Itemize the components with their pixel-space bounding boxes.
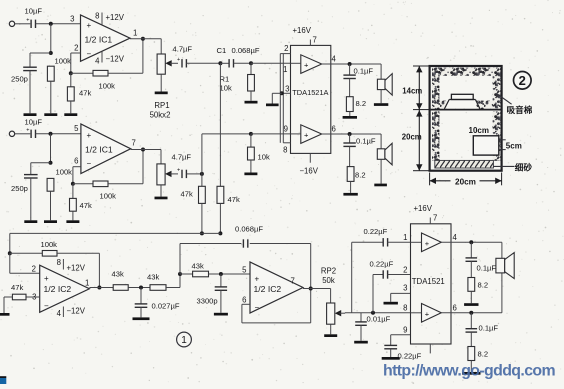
- wire: [470, 291, 472, 303]
- label 5cm: [500, 140, 522, 151]
- watermark url: [383, 362, 555, 379]
- wire: [140, 307, 142, 317]
- pin 6 label: [332, 125, 336, 134]
- svg-text:+: +: [177, 168, 180, 174]
- cabinet divider shelf: [431, 109, 502, 111]
- svg-text:7: 7: [433, 214, 437, 223]
- pin 4 -12V ch1: [95, 52, 125, 66]
- resistor 43k no1: [112, 270, 129, 291]
- figure label 2 circled: [514, 72, 532, 90]
- svg-text:10cm: 10cm: [469, 126, 489, 135]
- svg-text:0.01µF: 0.01µF: [367, 314, 391, 323]
- RP1 label: [150, 101, 171, 120]
- dimension 20cm bottom: [430, 173, 502, 187]
- svg-text:50kx2: 50kx2: [150, 111, 171, 120]
- pin 4 -12V IC2: [57, 307, 86, 319]
- node IC2b out: [309, 287, 313, 291]
- resistor 100k ch1 input: [47, 57, 71, 82]
- capacitor 0.22uF pin1: [352, 227, 411, 313]
- wire: [411, 312, 422, 314]
- node ch1 split: [218, 61, 222, 65]
- node pin3: [280, 91, 284, 95]
- wire: [380, 159, 382, 183]
- wire speaker bridge: [501, 242, 503, 312]
- node out6: [348, 132, 352, 136]
- node out6: [469, 311, 473, 315]
- op-amp IC2b: [250, 262, 303, 313]
- svg-text:+: +: [425, 239, 430, 248]
- pin 3 label: [70, 14, 74, 23]
- cabinet sand layer: [435, 160, 494, 168]
- dimension 14cm 20cm: [402, 66, 429, 171]
- wire: [160, 185, 162, 197]
- svg-text:250p: 250p: [11, 74, 28, 83]
- ground: [374, 103, 388, 106]
- amp A triangle: [422, 233, 442, 252]
- svg-text:1/2 IC2: 1/2 IC2: [254, 284, 282, 294]
- node ch1 bias: [49, 51, 53, 55]
- svg-text:47k: 47k: [80, 201, 92, 210]
- ground: [155, 92, 168, 95]
- pin 2 label: [403, 266, 407, 275]
- svg-text:3300p: 3300p: [197, 297, 218, 306]
- wire: [380, 64, 382, 79]
- svg-text:1: 1: [181, 335, 187, 346]
- pin 6 label: [74, 157, 78, 166]
- svg-text:47k: 47k: [181, 190, 193, 199]
- svg-text:0.22µF: 0.22µF: [370, 259, 394, 268]
- pin 2 label: [74, 44, 78, 53]
- svg-text:−12V: −12V: [67, 307, 86, 316]
- label absorbing cotton: [497, 94, 533, 115]
- svg-text:3: 3: [403, 284, 407, 293]
- wire: [29, 71, 31, 114]
- svg-text:47k: 47k: [228, 195, 240, 204]
- svg-text:RP1: RP1: [154, 101, 169, 110]
- wire: [411, 241, 422, 243]
- wire: [470, 361, 472, 373]
- svg-text:43k: 43k: [112, 270, 124, 279]
- capacitor 0.1uF out6: [466, 313, 499, 333]
- op-amp IC1b: [81, 124, 131, 174]
- wire: [10, 253, 40, 273]
- pins 2-3-8 tie column: [280, 54, 290, 143]
- wire: [166, 274, 180, 288]
- wire pin6 loop: [242, 289, 311, 323]
- capacitor 0.068uF feedback: [180, 225, 311, 289]
- capacitor 3300p: [197, 274, 228, 306]
- resistor R1 10k: [220, 63, 255, 92]
- pin 8 label: [283, 146, 287, 155]
- node ch1 fb: [69, 71, 73, 75]
- svg-text:2: 2: [519, 73, 526, 88]
- svg-text:+12V: +12V: [67, 264, 86, 273]
- svg-text:4: 4: [57, 309, 62, 318]
- svg-text:0.1µF: 0.1µF: [354, 67, 374, 76]
- node ch2 input: [49, 132, 53, 136]
- wire pin6: [73, 167, 81, 184]
- speaker LS1: [377, 74, 392, 96]
- resistor 47k IC2a: [4, 283, 40, 313]
- wire: [201, 203, 203, 233]
- wire out6: [322, 133, 381, 135]
- capacitor 0.1uF out4: [466, 242, 497, 272]
- svg-text:4.7µF: 4.7µF: [173, 45, 193, 54]
- ground: [44, 113, 57, 116]
- ground: [462, 372, 480, 375]
- wire: [31, 163, 51, 175]
- node 3300p top: [219, 272, 223, 276]
- node ch2 bias: [49, 161, 53, 165]
- svg-text:43k: 43k: [147, 273, 159, 282]
- pin 5 -16V stub: [300, 153, 319, 175]
- potentiometer RP2: [321, 267, 341, 325]
- capacitor 10uF ch1: [25, 7, 43, 29]
- wire: [349, 112, 351, 117]
- capacitor 0.22uF pin2: [370, 259, 411, 313]
- node IC2a out: [97, 286, 101, 290]
- wire: [30, 178, 32, 220]
- svg-text:TDA1521: TDA1521: [412, 277, 445, 286]
- svg-text:47k: 47k: [79, 89, 91, 98]
- svg-text:8: 8: [95, 12, 99, 21]
- cabinet absorbing-lining top chamber: [432, 68, 501, 109]
- svg-text:−: −: [87, 50, 92, 59]
- svg-text:TDA1521A: TDA1521A: [292, 88, 328, 97]
- svg-text:C1: C1: [217, 46, 227, 55]
- svg-text:50k: 50k: [322, 276, 335, 285]
- ground: [244, 173, 257, 176]
- svg-text:4: 4: [332, 55, 337, 64]
- svg-text:R1: R1: [220, 75, 230, 84]
- pin 9 label: [284, 125, 288, 134]
- pin 1 label: [283, 65, 287, 74]
- pin 8 +12V ch1: [95, 12, 125, 25]
- resistor 8.2 out4: [468, 261, 488, 291]
- svg-text:2: 2: [284, 44, 288, 53]
- svg-text:0.1µF: 0.1µF: [356, 137, 376, 146]
- svg-text:14cm: 14cm: [402, 87, 422, 96]
- wire: [30, 53, 51, 67]
- wire: [250, 91, 252, 101]
- wire: [202, 134, 251, 174]
- wire to pin1: [251, 62, 291, 64]
- wire: [291, 62, 301, 64]
- wire: [220, 290, 222, 313]
- wire: [380, 134, 382, 149]
- wire: [15, 133, 31, 135]
- svg-text:0.22µF: 0.22µF: [398, 352, 422, 361]
- svg-text:0.1µF: 0.1µF: [477, 264, 497, 273]
- resistor 47k ch2: [70, 184, 92, 211]
- svg-text:+: +: [26, 18, 29, 24]
- svg-text:0.068µF: 0.068µF: [232, 46, 260, 55]
- amp B triangle: [301, 125, 322, 144]
- svg-text:http://www.go-gddq.com: http://www.go-gddq.com: [383, 362, 555, 379]
- pin 2 label: [32, 265, 36, 274]
- ground: [133, 317, 150, 320]
- pin3 ground net: [391, 293, 411, 301]
- svg-text:+: +: [87, 21, 92, 30]
- ground: [24, 113, 37, 116]
- ground: [354, 341, 368, 344]
- resistor 47k mix L: [181, 174, 206, 204]
- wire: [108, 150, 143, 184]
- svg-text:−: −: [255, 303, 260, 312]
- svg-text:+16V: +16V: [293, 26, 312, 35]
- pin 4 label: [453, 233, 458, 242]
- pin 7 +16V: [293, 26, 317, 45]
- potentiometer RP1b: [157, 164, 178, 185]
- svg-text:8.2: 8.2: [355, 171, 366, 180]
- resistor 43k no3: [180, 261, 209, 277]
- ground: [66, 220, 79, 223]
- svg-text:100k: 100k: [41, 240, 58, 249]
- pin 2 label: [284, 44, 288, 53]
- pin 3 label: [32, 293, 36, 302]
- svg-text:1: 1: [403, 233, 407, 242]
- pin 4 label: [332, 55, 337, 64]
- node out4: [469, 240, 473, 244]
- svg-text:5cm: 5cm: [506, 141, 522, 150]
- ground: [382, 357, 400, 360]
- svg-text:1: 1: [85, 278, 89, 287]
- ground: [0, 313, 10, 316]
- ground: [24, 220, 37, 223]
- svg-text:细砂: 细砂: [515, 162, 533, 173]
- svg-text:100k: 100k: [55, 57, 72, 66]
- capacitor 4.7uF ch1: [173, 45, 193, 68]
- pin 7 label: [291, 277, 295, 286]
- wire wiper row: [339, 312, 410, 314]
- input jack J1 (left channel): [9, 21, 14, 26]
- svg-text:1: 1: [133, 29, 137, 38]
- wire: [350, 181, 352, 193]
- svg-text:+: +: [304, 131, 309, 140]
- amp A triangle: [301, 55, 322, 74]
- pin 6 label: [242, 296, 246, 305]
- wire: [360, 325, 362, 341]
- wire: [291, 133, 301, 135]
- wire: [160, 74, 162, 91]
- capacitor 250p ch2: [11, 175, 38, 193]
- resistor 43k no2: [147, 273, 166, 291]
- svg-text:+: +: [44, 274, 49, 283]
- svg-text:8.2: 8.2: [478, 350, 489, 359]
- svg-text:6: 6: [332, 125, 336, 134]
- svg-text:0.22µF: 0.22µF: [364, 227, 388, 236]
- svg-text:1/2 IC1: 1/2 IC1: [85, 145, 113, 155]
- wire: [72, 211, 74, 220]
- wire: [36, 23, 81, 25]
- resistor 8.2 ch1: [346, 79, 366, 112]
- pin 7 +16V: [414, 204, 438, 224]
- svg-text:吸音棉: 吸音棉: [507, 104, 533, 115]
- node 0.027 top: [139, 286, 143, 290]
- IC TDA1521 box: [411, 224, 452, 344]
- svg-text:+: +: [177, 57, 180, 63]
- potentiometer RP1a: [157, 54, 178, 74]
- svg-text:+: +: [425, 310, 430, 319]
- svg-text:8.2: 8.2: [478, 281, 489, 290]
- wire: [15, 23, 31, 25]
- resistor 8.2 ch2: [347, 146, 365, 181]
- svg-text:+12V: +12V: [106, 13, 125, 22]
- label fine sand: [493, 162, 532, 173]
- wire: [187, 173, 202, 175]
- svg-text:+: +: [255, 275, 260, 284]
- wire summing bus: [10, 233, 221, 253]
- wire: [250, 160, 252, 173]
- node ch2 fb: [71, 182, 75, 186]
- cabinet woofer driver: [444, 94, 480, 109]
- svg-text:6: 6: [74, 157, 78, 166]
- ground: [374, 184, 387, 187]
- ground: [384, 302, 398, 305]
- svg-text:2: 2: [74, 44, 78, 53]
- wire out6: [441, 312, 502, 314]
- pin 3 label: [403, 284, 407, 293]
- capacitor 0.1uF ch2: [343, 134, 376, 146]
- wire to pin9: [251, 133, 291, 135]
- svg-text:7: 7: [132, 138, 136, 147]
- ground: [214, 313, 228, 316]
- node sk fb: [178, 272, 182, 276]
- ground: [245, 101, 258, 104]
- svg-text:6: 6: [242, 296, 246, 305]
- svg-text:−16V: −16V: [300, 167, 319, 176]
- svg-text:9: 9: [403, 326, 407, 335]
- svg-text:1: 1: [283, 65, 287, 74]
- capacitor 10uF ch2: [25, 118, 43, 139]
- pin 1 label: [133, 29, 137, 38]
- resistor 10k ch2: [248, 134, 270, 162]
- pin 1 label: [403, 233, 407, 242]
- negative supply stub: [429, 344, 431, 353]
- node ch1 input: [49, 22, 53, 26]
- wire: [70, 101, 72, 113]
- capacitor 0.1uF ch1: [343, 64, 373, 79]
- svg-text:10µF: 10µF: [25, 118, 43, 127]
- ground: [464, 303, 478, 306]
- svg-text:3: 3: [70, 14, 74, 23]
- svg-text:43k: 43k: [192, 261, 204, 270]
- svg-text:−12V: −12V: [106, 55, 125, 64]
- wire: [128, 287, 150, 289]
- svg-text:0.027µF: 0.027µF: [152, 302, 180, 311]
- capacitor 4.7uF ch2: [172, 153, 192, 179]
- svg-text:9: 9: [284, 125, 288, 134]
- pin 9 label: [403, 326, 407, 335]
- wire pin7 out: [131, 150, 161, 164]
- node 10k top: [249, 132, 253, 136]
- svg-text:8: 8: [283, 146, 287, 155]
- svg-text:+: +: [26, 128, 29, 134]
- wire pin2: [71, 53, 81, 73]
- svg-text:5: 5: [74, 124, 79, 133]
- svg-text:+: +: [87, 131, 92, 140]
- resistor 100k ch1 feedback: [71, 70, 115, 90]
- svg-text:+: +: [304, 61, 309, 70]
- wire: [57, 253, 99, 287]
- cabinet absorbing-lining bottom chamber: [432, 111, 500, 160]
- pin 7 label: [132, 138, 136, 147]
- pin 1 label: [85, 278, 89, 287]
- svg-text:4: 4: [95, 57, 100, 66]
- wire out4: [322, 63, 381, 65]
- speaker LS3 (subwoofer): [496, 253, 514, 279]
- node R1 top: [249, 61, 253, 65]
- wire out4: [441, 241, 502, 243]
- wire: [50, 134, 52, 163]
- node bus R: [218, 231, 222, 235]
- resistor 47k mix R: [217, 63, 240, 204]
- svg-text:1/2 IC1: 1/2 IC1: [85, 35, 113, 45]
- cabinet outer box: [430, 66, 502, 171]
- svg-text:100k: 100k: [100, 191, 117, 200]
- wire pin1 out: [130, 39, 161, 54]
- svg-text:47k: 47k: [11, 283, 23, 292]
- svg-text:+16V: +16V: [414, 204, 433, 213]
- svg-text:7: 7: [313, 36, 317, 45]
- ground: [324, 334, 337, 337]
- svg-text:2: 2: [403, 266, 407, 275]
- ground: [343, 116, 357, 119]
- wire: [209, 273, 251, 275]
- wire: [50, 191, 52, 220]
- svg-text:10k: 10k: [220, 84, 232, 93]
- capacitor 0.22uF pin9: [384, 335, 421, 361]
- node ch2 output: [141, 148, 145, 152]
- capacitor 0.01uF: [355, 313, 390, 326]
- pin 5 label: [74, 124, 79, 133]
- svg-text:10k: 10k: [258, 153, 270, 162]
- wire: [50, 24, 52, 53]
- pin 8 +12V IC2: [57, 258, 86, 272]
- ground: [64, 113, 77, 116]
- ground: [343, 193, 357, 196]
- svg-text:100k: 100k: [56, 168, 73, 177]
- resistor 100k IC2a feedback: [10, 240, 57, 256]
- IC TDA1521A box: [291, 45, 331, 153]
- wire: [36, 133, 81, 135]
- svg-text:7: 7: [291, 277, 295, 286]
- capacitor 250p ch1: [11, 67, 37, 83]
- wire: [50, 81, 52, 113]
- svg-text:20cm: 20cm: [402, 133, 422, 142]
- node out4: [348, 62, 352, 66]
- wire: [303, 289, 331, 304]
- pin 6 label: [453, 304, 457, 313]
- svg-text:4: 4: [453, 233, 458, 242]
- svg-text:2: 2: [32, 265, 36, 274]
- cabinet port box 10cm: [469, 126, 499, 155]
- svg-text:100k: 100k: [99, 82, 116, 91]
- svg-text:0.068µF: 0.068µF: [235, 225, 263, 234]
- svg-text:4.7µF: 4.7µF: [172, 153, 192, 162]
- input jack J2 (right channel): [9, 131, 14, 136]
- svg-text:0.1µF: 0.1µF: [479, 324, 499, 333]
- ground: [44, 220, 57, 223]
- node ch2 split: [200, 172, 204, 176]
- svg-text:5: 5: [242, 266, 247, 275]
- svg-text:20cm: 20cm: [455, 177, 476, 186]
- wire: [330, 324, 332, 334]
- wire: [108, 39, 143, 73]
- corner logo: [0, 376, 6, 384]
- speaker LS2: [377, 143, 392, 165]
- wire: [89, 287, 113, 289]
